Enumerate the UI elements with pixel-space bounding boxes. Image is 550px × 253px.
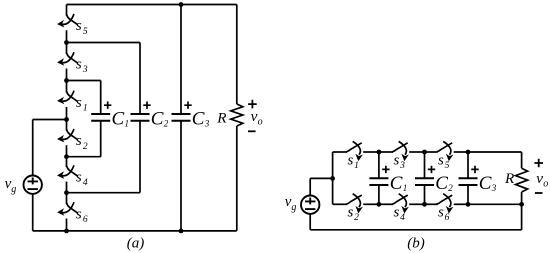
- wire bottom rail seg before s2 (b): [333, 203, 348, 205]
- switch s6: [436, 194, 453, 223]
- wire Vg top column: [32, 120, 34, 176]
- node C3 bottom rail: [179, 229, 184, 234]
- node R bottom (b): [519, 202, 524, 207]
- node C3 top rail: [179, 2, 184, 7]
- svg-text:2: 2: [164, 119, 169, 129]
- node C2 bottom (b): [422, 202, 427, 207]
- wire C2 bottom column (b): [424, 184, 426, 204]
- wire bottom rail seg before s6 (b): [425, 203, 438, 205]
- wire C3 top column: [180, 5, 182, 115]
- svg-text:s: s: [394, 205, 400, 221]
- wire top rail seg after s3 (b): [409, 151, 424, 153]
- switch s1: [346, 141, 363, 170]
- switch s6: [57, 202, 88, 225]
- wire junction riser (b): [332, 152, 334, 204]
- wire C3 top column (b): [467, 152, 469, 178]
- wire top rail (a): [67, 4, 237, 6]
- capacitor C2: [131, 102, 169, 130]
- svg-text:o: o: [258, 116, 263, 127]
- svg-text:3: 3: [82, 65, 88, 75]
- svg-text:s: s: [348, 205, 354, 221]
- svg-text:3: 3: [399, 161, 405, 171]
- switch s2: [346, 194, 363, 223]
- svg-text:s: s: [76, 18, 82, 34]
- svg-text:(a): (a): [127, 236, 145, 252]
- wire C1 bottom column: [100, 121, 102, 157]
- wire s3 node to C1 top: [67, 80, 101, 82]
- wire bottom rail C3 to R (b): [468, 203, 522, 205]
- wire C2 top column: [139, 43, 141, 115]
- wire Vg top (b): [309, 178, 311, 195]
- wire C3 bottom column: [180, 121, 182, 231]
- switch s1: [57, 91, 88, 114]
- wire chain seg below s5: [66, 30, 68, 42]
- node s1/s2 (Vg+): [64, 117, 69, 122]
- wire bottom rail (a): [33, 230, 237, 232]
- svg-text:3: 3: [491, 183, 497, 193]
- switch s3: [392, 141, 409, 170]
- node C3 top (b): [466, 150, 471, 155]
- wire Vg bottom (b): [309, 214, 311, 230]
- switch s4: [57, 165, 88, 188]
- svg-text:s: s: [76, 169, 82, 185]
- node below s2: [64, 154, 69, 159]
- wire chain seg below s1: [66, 107, 68, 120]
- wire C1 top column: [100, 81, 102, 115]
- switch s5: [57, 14, 88, 37]
- svg-text:2: 2: [354, 213, 359, 223]
- svg-text:6: 6: [83, 215, 88, 225]
- node C2 top (b): [422, 150, 427, 155]
- svg-text:4: 4: [400, 213, 405, 223]
- node below s4: [64, 190, 69, 195]
- wire chain seg above s2: [66, 120, 68, 131]
- wire Vg bottom column: [32, 194, 34, 231]
- label + vo - (a): [248, 100, 263, 132]
- wire C2 bottom column: [139, 121, 141, 193]
- node Vg+ junction (b): [330, 176, 335, 181]
- svg-text:s: s: [438, 152, 444, 168]
- capacitor C3: [459, 166, 497, 194]
- wire chain seg below s4: [66, 182, 68, 193]
- capacitor C1: [369, 166, 407, 194]
- svg-text:s: s: [76, 95, 82, 111]
- svg-text:C: C: [479, 173, 492, 194]
- wire C1 bottom to chain: [67, 156, 101, 158]
- node C3 bottom (b): [466, 202, 471, 207]
- svg-text:1: 1: [125, 119, 130, 129]
- wire return rail (b): [310, 229, 521, 231]
- wire top rail seg before s1 (b): [333, 151, 348, 153]
- wire chain seg above s4: [66, 157, 68, 167]
- wire chain seg below s6: [66, 219, 68, 231]
- svg-text:s: s: [394, 152, 400, 168]
- wire chain seg above s6: [66, 193, 68, 204]
- svg-text:v: v: [251, 108, 258, 125]
- capacitor C2: [415, 166, 453, 194]
- wire top rail seg after s5 (b): [454, 151, 468, 153]
- wire C1 bottom column (b): [378, 184, 380, 204]
- svg-text:4: 4: [83, 178, 88, 188]
- wire C2 top column (b): [424, 152, 426, 178]
- resistor R (b): [504, 152, 528, 230]
- svg-text:C: C: [192, 109, 205, 130]
- svg-text:v: v: [536, 170, 543, 187]
- voltage source Vg: [285, 194, 320, 214]
- capacitor C1: [91, 102, 129, 130]
- svg-text:1: 1: [83, 104, 88, 114]
- svg-text:s: s: [76, 206, 82, 222]
- svg-text:s: s: [76, 133, 82, 149]
- svg-text:5: 5: [83, 27, 88, 37]
- svg-text:2: 2: [83, 142, 88, 152]
- node chain-bottom: [64, 229, 69, 234]
- svg-text:g: g: [11, 184, 16, 195]
- svg-text:C: C: [112, 109, 125, 130]
- wire top rail C3 to R (b): [468, 151, 522, 153]
- svg-text:2: 2: [448, 183, 453, 193]
- svg-text:C: C: [435, 173, 448, 194]
- switch s3: [57, 52, 88, 75]
- svg-text:s: s: [438, 205, 444, 221]
- wire bottom rail seg before s4 (b): [379, 203, 393, 205]
- resistor R (a): [216, 5, 243, 231]
- svg-text:5: 5: [445, 161, 450, 171]
- wire top rail seg after s1 (b): [363, 151, 379, 153]
- switch s4: [392, 194, 409, 223]
- wire top rail seg before s3 (b): [379, 151, 393, 153]
- svg-text:s: s: [348, 152, 354, 168]
- wire s5 node to C2 top: [67, 42, 141, 44]
- svg-text:o: o: [543, 178, 548, 189]
- node below s5: [64, 40, 69, 45]
- svg-text:s: s: [76, 56, 82, 72]
- wire chain seg above s1: [66, 81, 68, 93]
- svg-text:C: C: [390, 173, 403, 194]
- svg-text:C: C: [151, 109, 164, 130]
- wire C1 top column (b): [378, 152, 380, 178]
- svg-text:1: 1: [354, 161, 359, 171]
- wire Vg+ to chain: [33, 119, 67, 121]
- svg-text:1: 1: [403, 183, 408, 193]
- switch s2: [57, 129, 88, 152]
- svg-text:(b): (b): [407, 236, 425, 252]
- voltage source Vg: [5, 176, 42, 196]
- wire chain seg above s5: [66, 5, 68, 16]
- wire Vg+ to junction (b): [310, 177, 332, 179]
- node below s3: [64, 78, 69, 83]
- svg-text:3: 3: [204, 119, 210, 129]
- svg-text:R: R: [216, 110, 227, 127]
- wire C2 bottom to chain: [67, 192, 141, 194]
- wire top rail seg before s5 (b): [425, 151, 438, 153]
- wire chain seg above s3: [66, 43, 68, 54]
- capacitor C3: [172, 102, 210, 130]
- wire bottom rail seg after s4 (b): [409, 203, 424, 205]
- node C1 top (b): [377, 150, 382, 155]
- wire chain seg below s2: [66, 145, 68, 157]
- svg-text:g: g: [291, 202, 296, 213]
- wire C3 bottom column (b): [467, 184, 469, 204]
- switch s5: [436, 141, 453, 170]
- wire bottom rail seg after s2 (b): [363, 203, 379, 205]
- label + vo - (b): [534, 159, 548, 193]
- wire bottom rail seg after s6 (b): [454, 203, 468, 205]
- wire chain seg below s3: [66, 69, 68, 81]
- node C1 bottom (b): [377, 202, 382, 207]
- svg-text:6: 6: [445, 213, 450, 223]
- svg-text:R: R: [504, 170, 515, 187]
